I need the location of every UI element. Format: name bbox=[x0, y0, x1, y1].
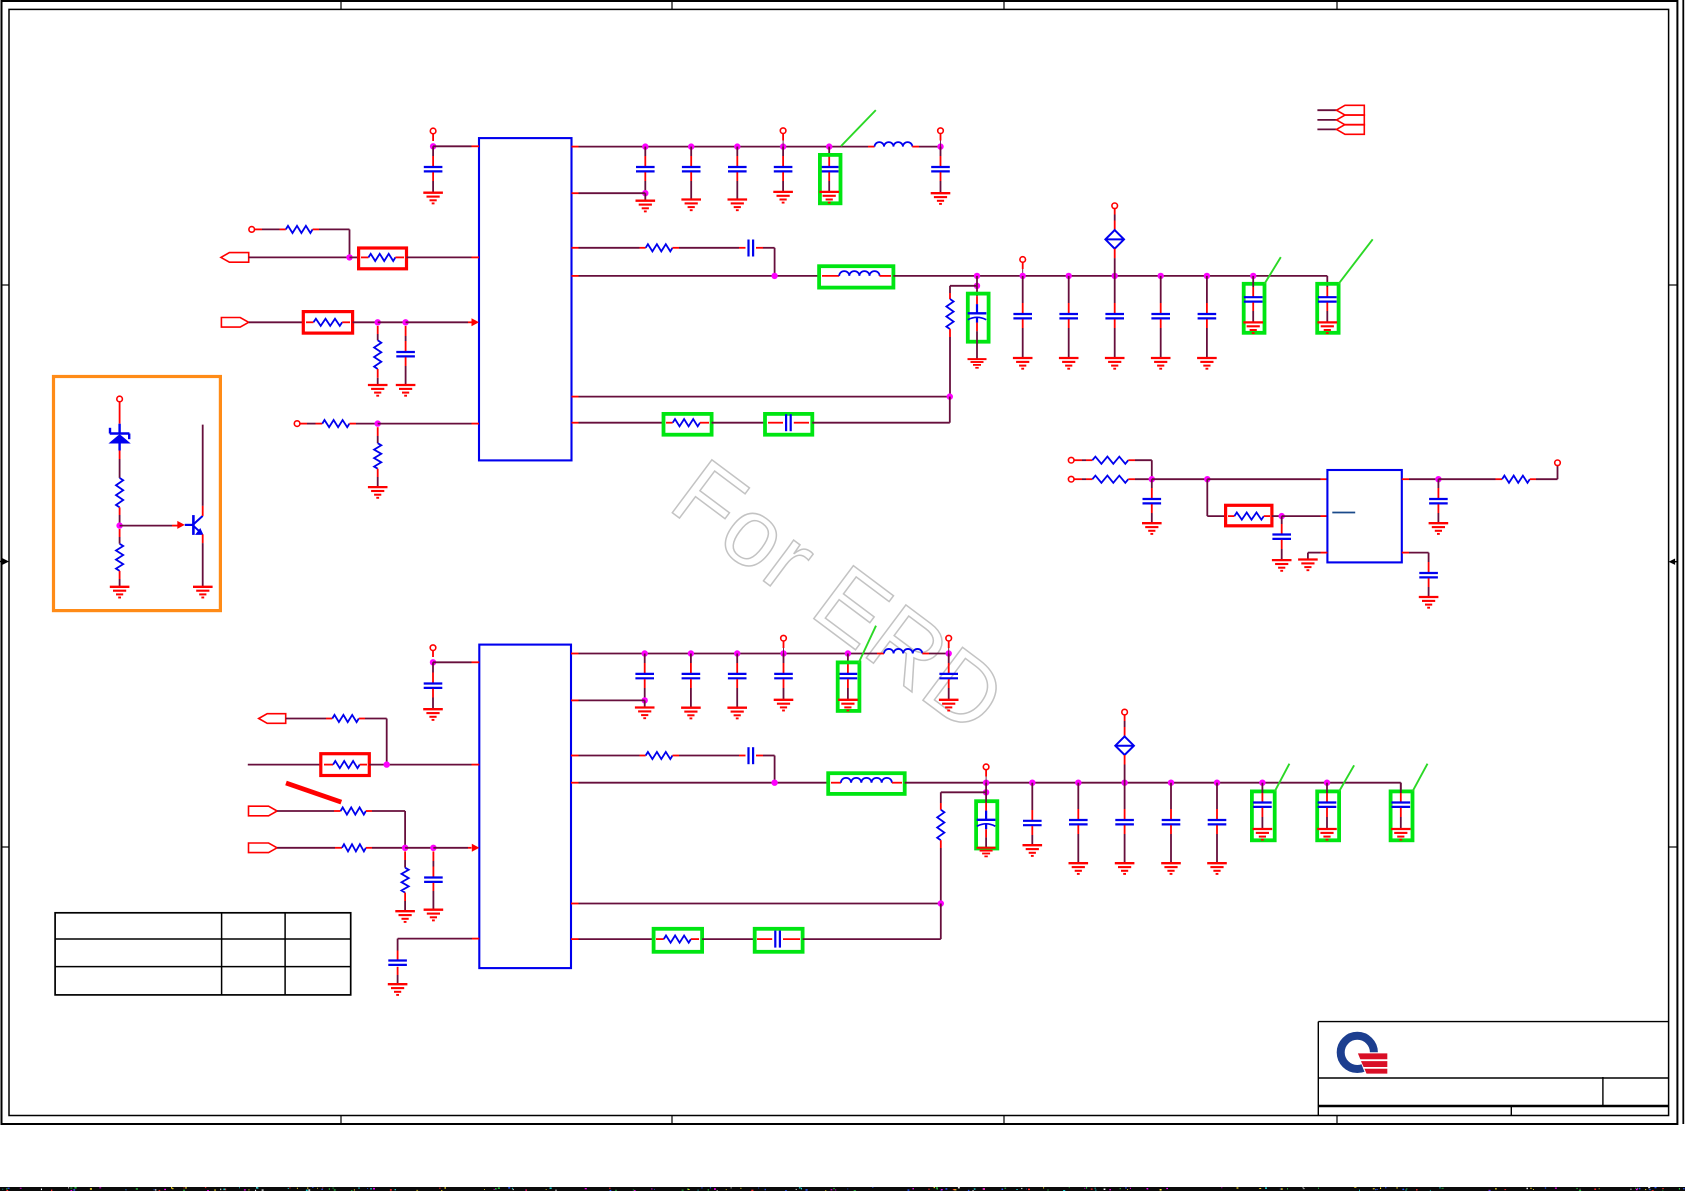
capacitor bank bbox=[774, 167, 793, 171]
pin stub bbox=[324, 764, 333, 766]
capacitor C16 bbox=[388, 961, 407, 965]
wire bbox=[949, 286, 951, 293]
pin bbox=[780, 128, 786, 134]
pin stub bbox=[1402, 478, 1409, 480]
pin stub bbox=[572, 247, 579, 249]
inductor L4 bbox=[841, 778, 892, 783]
wire bbox=[929, 653, 949, 655]
resistor R5 bbox=[322, 420, 349, 427]
capacitor bbox=[1059, 314, 1078, 318]
capacitor C20 bbox=[775, 931, 780, 948]
pin stub bbox=[572, 275, 579, 277]
wire bbox=[1170, 825, 1172, 834]
capacitor bbox=[1253, 803, 1272, 807]
wire bbox=[1114, 249, 1116, 258]
wire bbox=[432, 883, 434, 891]
pin stub bbox=[472, 661, 480, 663]
wire bbox=[1530, 478, 1536, 480]
wire bbox=[1031, 826, 1033, 835]
highlight box (green) C8 bbox=[765, 414, 812, 435]
highlight box (green) C10 bbox=[1317, 284, 1338, 333]
capacitor bbox=[1392, 803, 1411, 807]
junction bbox=[734, 650, 740, 656]
wire bbox=[432, 689, 434, 698]
wire bbox=[1114, 319, 1116, 328]
pin stub bbox=[794, 422, 809, 424]
pin stub bbox=[572, 396, 579, 398]
junction bbox=[826, 143, 832, 149]
transistor Q1 bbox=[185, 515, 203, 535]
wire bbox=[300, 423, 307, 425]
wire bbox=[1308, 552, 1321, 554]
highlight box (green) C9 bbox=[1244, 284, 1265, 333]
wire bbox=[782, 172, 784, 181]
ground bbox=[1272, 560, 1292, 571]
capacitor bank bbox=[728, 167, 747, 171]
pin stub bbox=[1402, 552, 1409, 554]
pin bbox=[1122, 709, 1128, 715]
pin stub bbox=[783, 938, 800, 940]
ground bbox=[1391, 829, 1411, 840]
wire bbox=[1281, 540, 1283, 549]
resistor R-b bbox=[116, 544, 123, 571]
resistor R18 bbox=[402, 868, 409, 893]
wire to U3 pin bbox=[433, 661, 472, 663]
resistor R7 bbox=[646, 244, 673, 251]
pin stub bbox=[666, 422, 673, 424]
capacitor bbox=[1115, 820, 1134, 824]
ground bbox=[1059, 358, 1079, 369]
pin bbox=[1020, 257, 1026, 263]
pin stub bbox=[472, 145, 480, 147]
wire bbox=[255, 228, 262, 230]
wire bbox=[948, 654, 950, 664]
capacitor bank bbox=[839, 674, 858, 678]
wire bbox=[976, 276, 978, 286]
border zone tick top 2 bbox=[671, 1, 673, 9]
wire bbox=[847, 654, 849, 664]
ground bbox=[1105, 358, 1125, 369]
wire to U1 bbox=[407, 256, 472, 258]
capacitor bbox=[1318, 803, 1337, 807]
wire corner bbox=[774, 248, 776, 276]
pin bbox=[983, 764, 989, 770]
wire bbox=[579, 422, 664, 424]
wire bbox=[690, 147, 692, 156]
ground bbox=[968, 359, 987, 368]
green slash mark bbox=[1339, 765, 1354, 791]
pin stub bbox=[1264, 515, 1270, 517]
pin bbox=[430, 645, 436, 651]
highlight box (green) bbox=[1252, 791, 1275, 840]
wire bbox=[690, 654, 692, 664]
wire corner bbox=[1400, 783, 1402, 792]
ground bbox=[110, 587, 130, 598]
wire bbox=[1151, 504, 1153, 513]
pin stub bbox=[1228, 515, 1234, 517]
wire bbox=[1261, 783, 1263, 793]
wire bbox=[1437, 479, 1439, 488]
wire bbox=[736, 679, 738, 688]
border zone tick top 4 bbox=[1336, 1, 1338, 9]
wire bbox=[313, 228, 319, 230]
wire corner bbox=[774, 756, 776, 783]
inductor L2 bbox=[839, 271, 879, 276]
pin stub bbox=[880, 275, 892, 277]
wire bbox=[803, 938, 941, 940]
zener diode D1 bbox=[110, 424, 130, 451]
capacitor C19 bbox=[749, 747, 754, 764]
base arrow pin bbox=[177, 521, 185, 529]
wire bbox=[1128, 459, 1135, 461]
ground bbox=[1115, 863, 1135, 874]
ground bbox=[1243, 322, 1263, 333]
junction bbox=[642, 697, 648, 703]
wire bbox=[404, 893, 406, 901]
capacitor bbox=[1013, 314, 1032, 318]
wire bbox=[828, 172, 830, 181]
border zone tick bottom 1 bbox=[340, 1116, 342, 1125]
wire bbox=[1206, 276, 1208, 303]
green slash mark bbox=[1265, 257, 1281, 284]
wire bbox=[349, 423, 356, 425]
pin bbox=[294, 421, 300, 427]
ground bbox=[819, 192, 839, 203]
wire bbox=[940, 172, 942, 181]
ground bbox=[1069, 863, 1089, 874]
pin stub bbox=[472, 423, 480, 425]
resistor R10 bbox=[1092, 457, 1128, 464]
IC U1 bbox=[479, 138, 572, 460]
resistor R11 bbox=[1092, 476, 1128, 483]
junction bbox=[780, 650, 786, 656]
junction bbox=[402, 319, 408, 325]
junction bbox=[1435, 476, 1441, 482]
wire bbox=[1124, 825, 1126, 834]
wire bbox=[378, 321, 406, 323]
wire bbox=[940, 147, 942, 156]
wire bbox=[119, 402, 121, 424]
wire corner bbox=[349, 229, 351, 257]
capacitor C18 bbox=[939, 674, 958, 678]
junction bbox=[1214, 780, 1220, 786]
wire bbox=[783, 641, 785, 648]
wire bbox=[1124, 755, 1126, 765]
junction bbox=[771, 273, 777, 279]
connector arrow 1 bbox=[1337, 105, 1365, 115]
ground bbox=[396, 385, 416, 396]
capacitor bank bbox=[635, 674, 654, 678]
wire bbox=[1261, 808, 1263, 817]
junction bbox=[780, 143, 786, 149]
junction bbox=[845, 650, 851, 656]
resistor R4 bbox=[374, 340, 381, 369]
page right edge line bbox=[1682, 0, 1684, 1124]
pin stub bbox=[571, 653, 579, 655]
pin stub bbox=[468, 847, 472, 849]
capacitor C6 bbox=[931, 167, 950, 171]
wire to U1 pin bbox=[433, 145, 471, 147]
wire rail D2 bbox=[579, 782, 829, 784]
capacitor bbox=[1023, 821, 1042, 825]
border zone tick top 3 bbox=[1003, 1, 1005, 9]
wire rail D bbox=[579, 275, 820, 277]
wire bbox=[948, 679, 950, 688]
wire bbox=[985, 770, 987, 777]
capacitor bank bbox=[728, 674, 747, 678]
wire bbox=[366, 847, 372, 849]
junction bbox=[1204, 273, 1210, 279]
pin stub bbox=[395, 256, 404, 258]
revision table bbox=[55, 913, 351, 995]
wire bbox=[1428, 553, 1430, 562]
wire bbox=[847, 679, 849, 688]
pin stub bbox=[572, 422, 579, 424]
wire bbox=[763, 247, 775, 249]
resistor R13 bbox=[1502, 476, 1530, 483]
pin stub bbox=[691, 938, 699, 940]
wire to U2 bbox=[1207, 478, 1320, 480]
capacitor C13 bbox=[1429, 499, 1448, 503]
pin stub bbox=[756, 247, 763, 249]
ground bbox=[395, 911, 415, 922]
junction bbox=[642, 650, 648, 656]
junction bbox=[430, 659, 436, 665]
highlight box (green) C17 bbox=[838, 662, 860, 711]
wire bbox=[1326, 303, 1328, 312]
ground bbox=[681, 708, 701, 719]
pin stub bbox=[572, 192, 579, 194]
inductor L1 bbox=[875, 142, 913, 146]
regulator U2 bbox=[1327, 470, 1401, 562]
resistor R20 bbox=[937, 810, 944, 840]
connector stub wire 2 bbox=[1317, 119, 1336, 121]
ground bbox=[1419, 597, 1439, 608]
junction bbox=[1112, 273, 1118, 279]
ground bbox=[939, 700, 959, 711]
resistor R1 bbox=[286, 226, 313, 233]
wire corner bbox=[1557, 466, 1559, 480]
capacitor bank bbox=[774, 674, 793, 678]
wire bbox=[736, 147, 738, 156]
wire corner bbox=[386, 719, 388, 765]
pin stub bbox=[472, 764, 480, 766]
ground bbox=[728, 200, 748, 211]
pin stub bbox=[472, 938, 479, 940]
junction bbox=[1324, 780, 1330, 786]
highlight box (green) R21 bbox=[654, 929, 703, 952]
ground bbox=[931, 193, 951, 204]
resistor R21 bbox=[664, 936, 691, 943]
wire bbox=[1022, 262, 1024, 269]
wire bbox=[1307, 553, 1309, 560]
highlight box (green) CP2 bbox=[976, 801, 997, 848]
wire corner bbox=[1206, 479, 1208, 516]
connector arrow 2 bbox=[1337, 115, 1365, 125]
green slash mark bbox=[859, 626, 877, 663]
wire bbox=[644, 679, 646, 688]
pin bbox=[1555, 460, 1561, 466]
pin stub bbox=[334, 810, 341, 812]
wire bbox=[1022, 276, 1024, 303]
junction bbox=[1158, 273, 1164, 279]
highlight box (green) bbox=[1317, 791, 1339, 840]
wire bbox=[1114, 209, 1116, 215]
wire bbox=[985, 783, 987, 793]
pin stub bbox=[1321, 478, 1328, 480]
pin stub bbox=[571, 782, 579, 784]
capacitor bbox=[1105, 314, 1124, 318]
wire bbox=[579, 938, 654, 940]
wire bbox=[948, 641, 950, 648]
wire bbox=[1160, 276, 1162, 303]
wire bbox=[432, 651, 434, 657]
junction bbox=[734, 143, 740, 149]
wire bbox=[1074, 478, 1082, 480]
resistor R19 bbox=[646, 752, 673, 759]
ground bbox=[424, 910, 444, 921]
junction bbox=[974, 273, 980, 279]
wire bbox=[1216, 825, 1218, 834]
pin stub bbox=[922, 653, 929, 655]
junction bbox=[771, 780, 777, 786]
wire bbox=[1068, 319, 1070, 328]
ground bbox=[636, 201, 656, 212]
pin stub bbox=[472, 256, 480, 258]
wire bbox=[432, 146, 434, 156]
pin stub bbox=[360, 764, 367, 766]
capacitor bank bbox=[682, 674, 701, 678]
pin stub bbox=[640, 247, 646, 249]
junction bbox=[688, 650, 694, 656]
ground bbox=[423, 193, 443, 204]
ground bbox=[423, 709, 443, 720]
green slash mark bbox=[1339, 239, 1373, 283]
junction bbox=[974, 283, 980, 289]
capacitor bank bbox=[820, 167, 839, 171]
capacitor C14 bbox=[1419, 573, 1438, 577]
ground bbox=[1317, 829, 1337, 840]
wire bbox=[702, 938, 755, 940]
pin bbox=[430, 128, 436, 134]
company logo bbox=[1341, 1036, 1388, 1075]
capacitor C-in2 bbox=[424, 684, 443, 688]
input arrow pin bbox=[472, 844, 480, 852]
wire bbox=[679, 755, 739, 757]
ground bbox=[193, 587, 213, 598]
pin bbox=[946, 635, 952, 641]
junction bbox=[983, 780, 989, 786]
pin bbox=[1068, 457, 1074, 463]
wire bbox=[1272, 515, 1282, 517]
connector arrow IN1 bbox=[221, 253, 249, 263]
border centering arrow left bbox=[0, 561, 5, 563]
wire bbox=[812, 422, 950, 424]
junction bbox=[1250, 273, 1256, 279]
IC U3 bbox=[479, 645, 571, 969]
wire bbox=[644, 172, 646, 181]
junction bbox=[1121, 780, 1127, 786]
wire bbox=[1326, 287, 1328, 297]
pin bbox=[938, 128, 944, 134]
wire bbox=[1022, 319, 1024, 328]
pin stub bbox=[673, 247, 680, 249]
resistor R9 bbox=[673, 419, 700, 426]
border zone tick bottom 3 bbox=[1003, 1116, 1005, 1125]
wire bbox=[1170, 783, 1172, 809]
green slash mark bbox=[1275, 764, 1290, 792]
connector arrow OUT1 bbox=[259, 714, 286, 724]
capacitor bbox=[1198, 314, 1217, 318]
pin stub bbox=[877, 653, 884, 655]
wire bbox=[736, 172, 738, 181]
pin stub bbox=[342, 321, 350, 323]
wire bbox=[579, 247, 640, 249]
power flag bbox=[1115, 736, 1134, 755]
wire bbox=[1114, 276, 1116, 303]
wire bbox=[828, 147, 830, 156]
wire bbox=[432, 134, 434, 141]
wire bbox=[1152, 478, 1208, 480]
pin stub bbox=[700, 422, 709, 424]
resistor R15 bbox=[333, 761, 360, 768]
junction bbox=[937, 143, 943, 149]
pin stub bbox=[656, 938, 664, 940]
power flag bbox=[1105, 230, 1124, 249]
green slash mark bbox=[1413, 764, 1428, 792]
ground bbox=[635, 708, 655, 719]
ground bbox=[681, 200, 701, 211]
highlight box (green) C5 bbox=[820, 155, 841, 203]
connector stub wire 3 bbox=[1317, 128, 1336, 130]
pin stub bbox=[673, 755, 680, 757]
capacitor C8 bbox=[786, 414, 791, 431]
wire bbox=[377, 469, 379, 477]
highlight box (green) bbox=[1391, 791, 1413, 840]
capacitor bbox=[1208, 820, 1227, 824]
resistor R8 bbox=[946, 299, 953, 329]
ground bbox=[1023, 845, 1043, 856]
ground bbox=[368, 487, 388, 498]
border zone tick right 1 bbox=[1669, 284, 1678, 286]
capacitor bbox=[1151, 314, 1170, 318]
wire to U3 bbox=[433, 847, 468, 849]
wire bbox=[976, 323, 978, 332]
wire bbox=[1428, 578, 1430, 587]
pin stub bbox=[1496, 478, 1503, 480]
capacitor C9 bbox=[1244, 297, 1263, 301]
highlight box (green) C20 bbox=[755, 929, 803, 952]
junction bbox=[1168, 780, 1174, 786]
wire bbox=[644, 700, 646, 707]
pin stub bbox=[1321, 515, 1328, 517]
wire bbox=[1206, 319, 1208, 328]
resistor R-a bbox=[116, 478, 123, 508]
wire corner bbox=[1326, 276, 1328, 287]
wire bbox=[366, 810, 372, 812]
border zone tick top 1 bbox=[340, 1, 342, 9]
wire base bbox=[120, 525, 172, 527]
wire bbox=[644, 654, 646, 664]
junction bbox=[1149, 476, 1155, 482]
scan noise band at page bottom bbox=[0, 1187, 1685, 1191]
pin P1 bbox=[117, 396, 123, 402]
wire bbox=[277, 810, 334, 812]
wire bbox=[985, 792, 987, 803]
wire bbox=[1409, 552, 1429, 554]
wire bbox=[976, 286, 978, 296]
junction bbox=[384, 761, 390, 767]
